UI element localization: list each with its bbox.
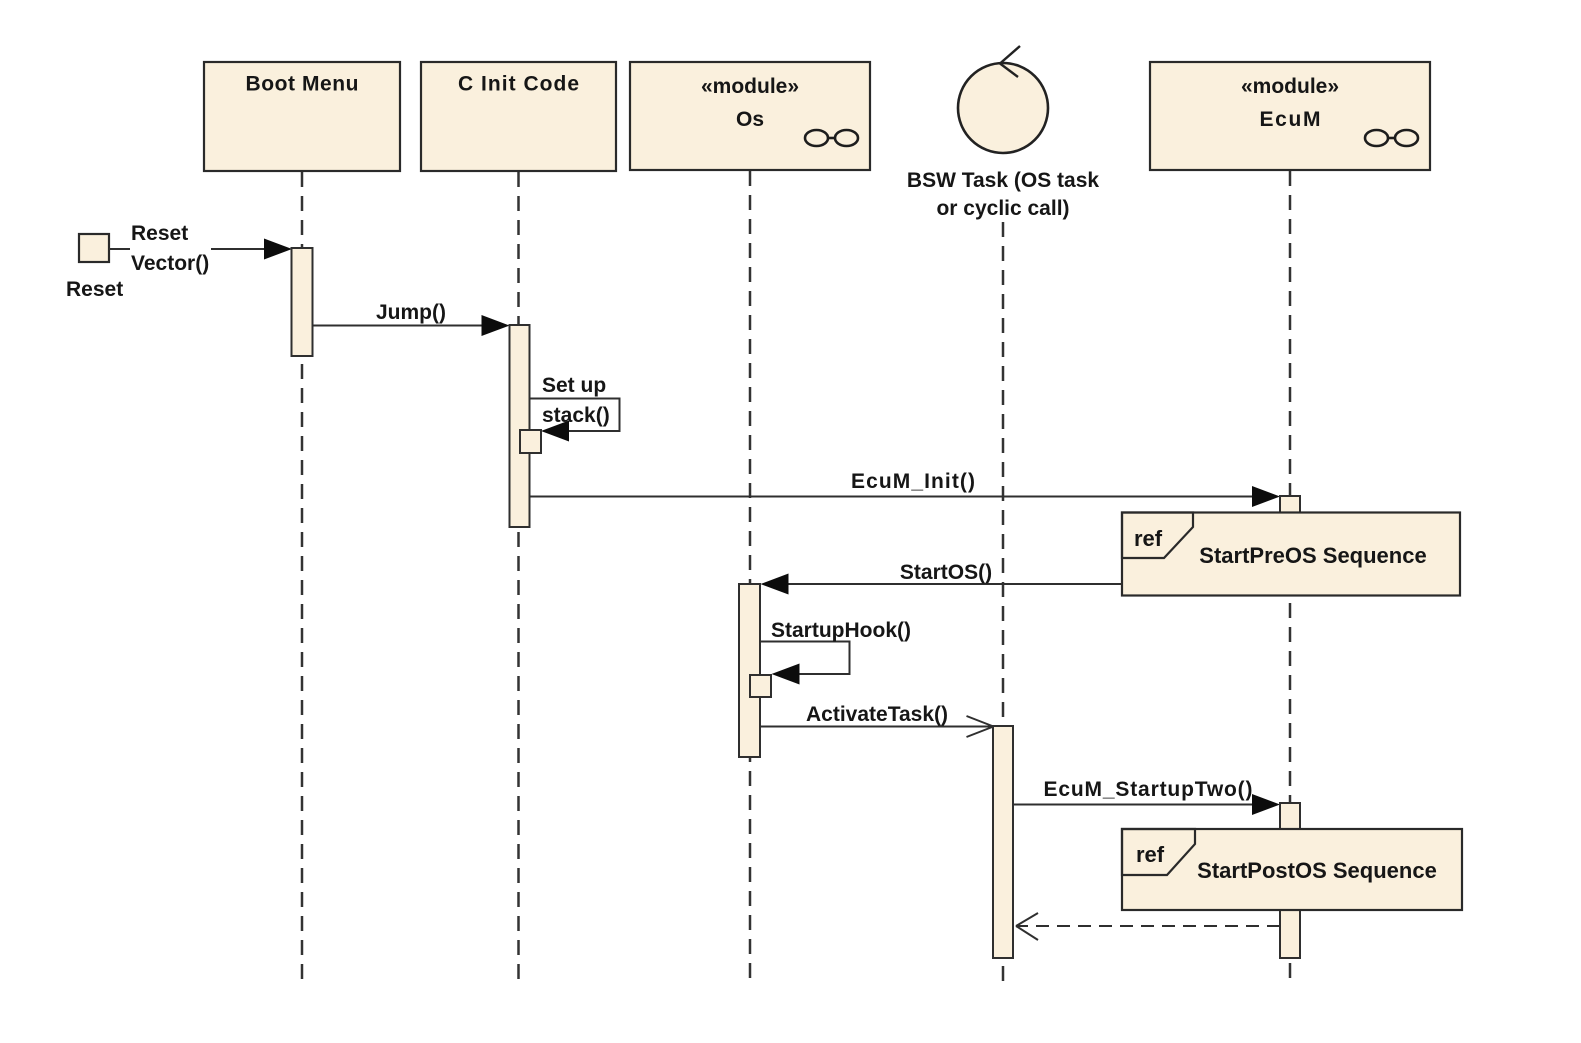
svg-text:EcuM_StartupTwo(): EcuM_StartupTwo() [1044,778,1253,801]
svg-text:C Init Code: C Init Code [458,73,579,96]
lifeline head box C Init Code [421,62,616,171]
lifeline Os (dashed) [749,171,752,985]
message Jump() [313,301,510,336]
activation Boot Menu [292,248,313,356]
lifeline BSW Task (dashed) [1002,222,1005,985]
svg-text:Reset: Reset [131,222,188,245]
svg-text:Vector(): Vector() [131,252,209,275]
activation Os [739,584,760,757]
activation EcuM first [1280,496,1300,595]
lifeline head box Boot Menu [204,62,400,171]
svg-text:StartOS(): StartOS() [900,561,992,584]
message EcuM_Init() [530,470,1281,507]
BSW Task circle [958,46,1048,153]
svg-text:StartPostOS Sequence: StartPostOS Sequence [1197,858,1437,883]
svg-text:Reset: Reset [66,278,123,301]
svg-text:Boot Menu: Boot Menu [246,73,359,96]
self message Set up stack() [530,374,620,442]
svg-text:«module»: «module» [701,75,799,98]
BSW Task label [907,169,1099,220]
message EcuM_StartupTwo() [1013,778,1280,815]
svg-text:StartupHook(): StartupHook() [771,619,911,642]
Reset actor square [79,234,109,262]
ref fragment StartPreOS Sequence [1122,513,1460,596]
lifeline head box Os (module) [630,62,870,170]
svg-text:or cyclic call): or cyclic call) [936,197,1069,220]
message Reset Vector() [109,222,292,275]
activation C Init Code [510,325,530,527]
svg-text:EcuM_Init(): EcuM_Init() [851,470,975,493]
nested activation Os [750,675,771,697]
lifeline C Init Code (dashed) [517,172,520,985]
svg-text:ref: ref [1136,842,1165,867]
activation BSW Task [993,726,1013,958]
svg-text:ActivateTask(): ActivateTask() [806,703,948,726]
svg-text:EcuM: EcuM [1260,108,1321,131]
svg-text:ref: ref [1134,526,1163,551]
message ActivateTask() (async open head) [760,703,994,737]
svg-text:«module»: «module» [1241,75,1339,98]
lifeline Boot Menu (dashed) [301,172,304,985]
nested activation C Init Code [520,430,541,453]
module icon EcuM [1365,130,1418,146]
lifeline head box EcuM (module) [1150,62,1430,170]
ref fragment StartPostOS Sequence [1122,829,1462,910]
svg-text:BSW Task (OS task: BSW Task (OS task [907,169,1099,192]
message StartOS() [761,561,1123,595]
self message StartupHook() [760,619,911,685]
lifeline EcuM (dashed) [1289,171,1292,985]
return message (dashed, open head) [1016,913,1280,940]
svg-text:Os: Os [736,108,764,131]
svg-text:stack(): stack() [542,404,610,427]
svg-text:Set up: Set up [542,374,606,397]
activation EcuM second [1280,803,1300,958]
svg-text:Jump(): Jump() [376,301,446,324]
module icon Os [805,130,858,146]
svg-text:StartPreOS Sequence: StartPreOS Sequence [1199,543,1426,568]
